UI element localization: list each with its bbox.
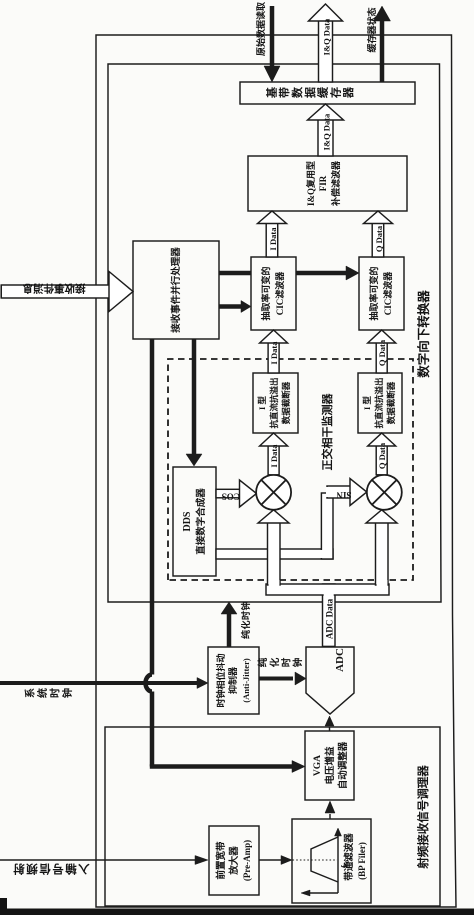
svg-text:频: 频 [26, 862, 38, 876]
pipe: ADC data shaft (hollow, east) [323, 584, 336, 646]
arrow: mixer I to truncator I (hollow) [268, 445, 279, 474]
arrow: FIR to buffer I&Q Data (hollow) [318, 119, 333, 156]
svg-text:CIC滤波器: CIC滤波器 [382, 271, 393, 316]
svg-text:I Data: I Data [268, 227, 278, 251]
svg-text:CIC滤波器: CIC滤波器 [274, 271, 285, 316]
svg-text:钟: 钟 [292, 657, 304, 667]
svg-text:I 型: I 型 [257, 396, 267, 410]
svg-text:数: 数 [290, 86, 304, 98]
svg-text:信: 信 [39, 862, 51, 876]
svg-text:I 型: I 型 [362, 396, 372, 410]
bp filter response trapezoid [311, 837, 338, 882]
svg-text:DDS: DDS [182, 511, 193, 531]
svg-text:钟: 钟 [61, 688, 74, 698]
svg-text:前置宽带: 前置宽带 [215, 841, 227, 880]
svg-text:系: 系 [24, 688, 37, 698]
svg-text:纯: 纯 [257, 657, 269, 667]
wire: CIC-I to CIC-Q (thick arrow) [296, 271, 346, 276]
scan artifact: page edge band [0, 909, 474, 915]
svg-text:(BP Filer): (BP Filer) [357, 842, 367, 880]
svg-text:FIR: FIR [318, 175, 328, 191]
arrow: raw data read 原始数据读取 (thick, west into buffer) [270, 6, 275, 66]
svg-text:ADC Data: ADC Data [324, 598, 334, 639]
svg-text:数据截断器: 数据截断器 [281, 381, 291, 424]
svg-text:缓存器状态: 缓存器状态 [366, 7, 377, 52]
wire: AGC control from processor to VGA (thick, hops over clock line) [150, 339, 155, 675]
wire: BP filter to VGA [329, 814, 331, 819]
svg-text:VGA: VGA [313, 755, 323, 776]
arrow: CIC Q to FIR (hollow) [372, 223, 384, 257]
arrow: CIC I to FIR (hollow) [266, 223, 278, 257]
digital down converter box (DDC) [108, 64, 441, 602]
arrow: receive event message (hollow, from top) [1, 285, 109, 298]
svg-text:存: 存 [328, 87, 342, 98]
svg-text:抗直流抗溢出: 抗直流抗溢出 [269, 377, 279, 428]
outer receiver box [96, 35, 456, 907]
block: CIC filter I 抽取率可变的CIC滤波器 [251, 257, 296, 330]
svg-text:缓: 缓 [316, 86, 330, 98]
svg-text:SIN: SIN [336, 490, 352, 500]
svg-text:Q Data: Q Data [377, 339, 387, 366]
block: ADC pentagon [306, 647, 354, 714]
wire: preamp to BP filter [259, 859, 281, 861]
svg-text:输: 输 [65, 862, 77, 876]
svg-text:ADC: ADC [334, 648, 346, 672]
svg-text:时钟相位抖动: 时钟相位抖动 [215, 653, 226, 707]
mixer I (circle with X) [256, 475, 291, 510]
wire: processor to CIC-I (thick arrow) [219, 304, 241, 309]
svg-text:纯化时钟: 纯化时钟 [240, 601, 251, 639]
svg-text:原始数据读取: 原始数据读取 [255, 1, 266, 56]
arrow: buffer status 缓存器状态 (thick, east out) [380, 21, 385, 82]
block: DDS 直接数字合成器 [173, 467, 216, 576]
svg-text:放大器: 放大器 [228, 846, 240, 876]
svg-text:统: 统 [36, 688, 49, 698]
svg-text:器: 器 [342, 86, 355, 99]
svg-text:抑制器: 抑制器 [227, 666, 238, 694]
arrow: buffer output I&Q Data (hollow) [319, 20, 333, 82]
arrow: truncator I to CIC I (hollow) [268, 342, 279, 373]
arrow: mixer Q to truncator Q (hollow) [376, 445, 387, 474]
bp filter axis y [310, 892, 338, 894]
arrow: data branch to mixer I [268, 522, 281, 585]
svg-text:补偿滤波器: 补偿滤波器 [330, 160, 341, 207]
RF signal conditioner box [105, 727, 440, 906]
block: bandpass filter 带通滤波器 [292, 819, 371, 903]
block: FIR compensation filter I&Q复用型FIR补偿滤波器 [248, 156, 407, 211]
svg-text:数据截断器: 数据截断器 [386, 381, 396, 424]
svg-text:Q Data: Q Data [374, 225, 384, 252]
svg-text:自动调整器: 自动调整器 [337, 741, 349, 789]
svg-text:电压增益: 电压增益 [324, 746, 336, 785]
pipe: ADC data riser [266, 584, 389, 595]
svg-text:时: 时 [49, 688, 62, 698]
wire: system clock 系统时钟 (thick) [0, 681, 198, 685]
svg-text:I&Q Data: I&Q Data [322, 113, 332, 150]
svg-text:I&Q复用型: I&Q复用型 [305, 161, 316, 206]
arrow: DDS cos output (hollow, south) [216, 489, 240, 498]
mixer Q (circle with X) [367, 475, 402, 510]
block: VGA 电压增益自动调整器 [305, 731, 354, 800]
dashed quadrature monitor box [168, 359, 413, 580]
bp filter axis x [337, 835, 339, 893]
svg-text:入: 入 [78, 862, 90, 875]
svg-text:射频接收信号调理器: 射频接收信号调理器 [416, 765, 430, 870]
wire: VGA to ADC [329, 727, 331, 731]
block: receive event parallel processor 接收事件并行处理器 [133, 241, 219, 339]
svg-text:抽取率可变的: 抽取率可变的 [368, 266, 379, 320]
svg-text:号: 号 [52, 862, 64, 875]
wire: RF input 射频信号输入 [0, 859, 196, 861]
block: anti-jitter 时钟相位抖动抑制器 [208, 647, 259, 714]
block: baseband data buffer 基带数据缓存器 [240, 82, 415, 104]
wire: processor to DDS (thick west arrow) [192, 339, 197, 455]
svg-text:带通滤波器: 带通滤波器 [343, 833, 355, 881]
block: truncator Q [358, 373, 402, 433]
svg-text:I Data: I Data [269, 341, 279, 365]
bp filter f0 dotted line [293, 859, 338, 861]
svg-text:接收事件并行处理器: 接收事件并行处理器 [170, 247, 182, 333]
block: truncator I 抗直流抗溢出数据截断器 [253, 373, 298, 433]
svg-text:正交相干监测器: 正交相干监测器 [320, 393, 334, 471]
svg-text:基: 基 [264, 86, 278, 99]
wire: purified clock to ADC (south arrow) [259, 677, 293, 681]
pipe: DDS sin output elbow (hollow) [216, 549, 333, 559]
arrow head: sin into mixer Q [350, 479, 367, 506]
svg-text:据: 据 [303, 87, 317, 98]
svg-text:(Anti-Jitter): (Anti-Jitter) [241, 658, 251, 703]
wire: purified clock to DDC (east arrow) [227, 613, 232, 647]
svg-text:化: 化 [269, 657, 281, 667]
svg-text:抗直流抗溢出: 抗直流抗溢出 [374, 377, 384, 428]
block: CIC filter Q [359, 257, 404, 330]
svg-text:COS: COS [222, 492, 241, 502]
svg-text:I&Q Data: I&Q Data [322, 18, 332, 55]
svg-text:I Data: I Data [269, 444, 279, 468]
svg-text:抽取率可变的: 抽取率可变的 [260, 266, 271, 320]
svg-text:射: 射 [13, 862, 26, 876]
svg-text:(Pre-Amp): (Pre-Amp) [242, 840, 252, 881]
svg-text:带: 带 [277, 87, 291, 98]
svg-text:直接数字合成器: 直接数字合成器 [195, 488, 207, 555]
arrow: truncator Q to CIC Q (hollow) [376, 342, 387, 373]
svg-text:数字向下转换器: 数字向下转换器 [416, 290, 431, 379]
svg-text:时: 时 [281, 657, 293, 667]
arrow: data branch to mixer Q [376, 522, 389, 585]
wire: processor to CIC-I (thick, plain end) [219, 271, 251, 276]
svg-text:Q Data: Q Data [377, 442, 387, 469]
svg-text:接收事件消息: 接收事件消息 [22, 282, 85, 295]
block: pre-amplifier 前置宽带放大器 [209, 826, 259, 895]
